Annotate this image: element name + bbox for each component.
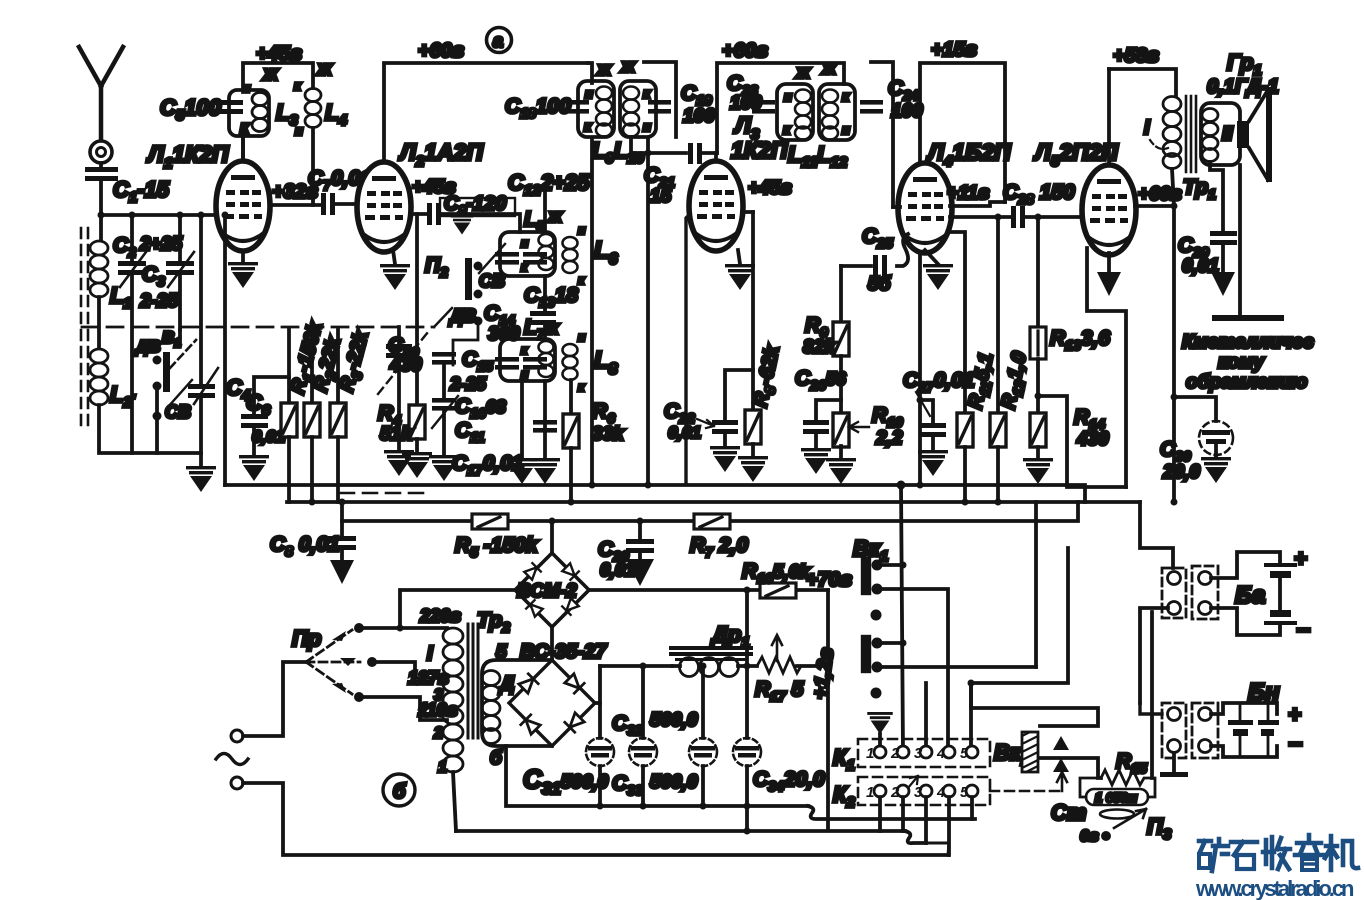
Тр2 secondary winding [482,671,500,744]
capacitor C21 15 [688,143,702,164]
dashed AGC line [82,326,434,329]
svg-text:ДВ: ДВ [134,337,161,356]
svg-text:C18100: C18100 [505,95,571,121]
wire L2 down to bottom run [99,405,201,453]
svg-text:4: 4 [936,745,946,762]
resistor R3 22k [336,330,340,403]
SEC_L2 [308,28,648,503]
Вк1 contact bar 2 [862,636,870,672]
potentiometer Ст 1650м [1086,789,1148,805]
SEC_BUSX [225,481,1178,587]
wire anode Л2 to +60в rail [384,63,588,162]
resistor R14 430 [1036,396,1040,413]
ground under Л4 [925,250,938,264]
wire Вк1 contact feeds [877,565,1036,752]
resistor R2 22k [310,330,314,403]
bus line A [225,485,1085,502]
SEC_WM [1195,835,1358,900]
bridge ВС diamond [509,660,595,746]
wire C12 from top [543,193,547,232]
wire R15 right vertical [1150,612,1154,778]
wire C21 to Л3 top [702,151,717,155]
svg-text:5: 5 [960,745,969,762]
resistor R13 3,6 [1036,217,1040,327]
wires fuse to Тр2 taps [359,626,447,630]
svg-text:2: 2 [433,725,443,742]
antenna jack [90,141,112,163]
svg-text:ВСМ-2: ВСМ-2 [517,581,577,602]
+58в rail [1109,69,1176,95]
svg-text:н: н [784,89,792,104]
wire Тр1 primary bottom down [1172,169,1174,502]
capacitor C2 2-25 variable [130,215,134,262]
wire Л5 anode up [1107,69,1111,165]
svg-text:б: б [490,748,503,769]
tube V2 Л2 1А2П [357,162,411,252]
svg-text:2-25: 2-25 [139,291,178,312]
capacitor C20 0,01 [638,521,642,540]
svg-text:C8 0,01: C8 0,01 [270,533,340,559]
wire antenna to C1 [99,163,103,168]
svg-text:II: II [1222,124,1233,145]
capacitor C19 [644,62,676,137]
svg-text:C270,01: C270,01 [903,369,975,395]
speaker voice coil [1237,121,1249,148]
svg-text:к: к [578,380,585,394]
dashed gang lines left [81,228,88,432]
svg-text:I: I [427,643,433,665]
svg-text:+: + [1294,546,1307,571]
svg-text:+45в: +45в [748,178,792,199]
transformer Тр1 primary [1163,97,1181,169]
wire +15в into Л4 screen [950,202,1005,206]
svg-text:+15в: +15в [931,39,977,61]
wire Тр2 top to bridge [400,590,515,628]
svg-text:5: 5 [496,642,507,663]
mains symbol ~ [216,754,248,765]
wire anode Л1 up to L3 [241,131,245,161]
resistor R11 5,1 [950,232,965,413]
capacitor C33 electrolytic [701,666,705,806]
speaker return to chassis [1238,165,1242,318]
capacitor C7 0,01 [321,193,335,215]
feedback box wire [1038,396,1126,487]
svg-text:н: н [243,81,251,95]
wire rail drop to IF1 [588,63,592,83]
resistor R4 51k [415,214,419,405]
capacitor C5 [213,100,243,114]
svg-text:−: − [1288,731,1302,758]
svg-text:2,2: 2,2 [875,428,903,449]
svg-text:1К2П: 1К2П [731,137,788,163]
svg-text:20,0: 20,0 [1162,462,1200,483]
svg-text:−: − [1296,617,1310,644]
mains terminal top [231,730,243,742]
svg-text:Пр: Пр [292,626,321,651]
wire C9 into oscillator [441,214,520,232]
Вк2 arm lower [1040,758,1101,778]
svg-text:C122÷25: C122÷25 [508,170,590,199]
watermark glyph yin [1295,835,1323,870]
wire L6 down long [590,140,594,485]
mains terminal bottom [231,777,243,789]
trimmer caps C12 C13 inside [495,252,547,265]
capacitor C8 0,01 [340,521,344,537]
wire long vertical x1068 [971,548,1068,752]
svg-text:15: 15 [650,186,672,207]
IF1 box L10 [620,81,656,137]
svg-text:2: 2 [890,784,900,801]
mid bottom rail [456,829,905,833]
svg-text:б: б [393,781,406,803]
arrow ground Л5 [1107,253,1111,272]
resistor R6 [569,380,573,414]
svg-text:100: 100 [683,106,715,127]
svg-text:СВ: СВ [479,271,505,291]
watermark glyph ji [1325,836,1358,870]
svg-text:2: 2 [890,745,900,762]
node b [383,774,415,806]
wire bridge right +70в line [589,588,828,592]
capacitor C22 0,01 [725,370,753,421]
coil L8 loops [563,344,578,380]
coil L1 [90,241,108,297]
wire long vertical x903 [901,485,903,752]
svg-text:C3420,0: C3420,0 [753,768,825,794]
wire C24 drop [871,62,893,207]
ground left bottom [199,453,203,466]
bus junction dots [309,481,1178,506]
rectifier box ВС-35-27 [482,660,552,746]
capacitor C25 5б [841,234,908,266]
svg-text:н: н [295,123,303,138]
transformer Тр2 primary winding [443,628,463,772]
IF1 box L9 [578,81,614,137]
R5 R7 line [342,502,1078,521]
node a [487,28,512,53]
capacitor C31 electrolytic [598,666,602,806]
svg-text:R165,6k: R165,6k [742,560,811,586]
svg-text:3: 3 [914,784,923,801]
svg-text:Д: Д [498,673,514,695]
svg-text:+60в: +60в [418,40,464,62]
bus line B [287,500,1140,504]
resistor R7 2,0 [694,514,730,529]
svg-text:Ж: Ж [262,67,279,84]
svg-text:Ж: Ж [547,209,563,226]
svg-text:2-25: 2-25 [449,374,487,394]
svg-text:к: к [643,85,651,101]
variable capacitor C4 [199,215,203,386]
wires L7 box to grounds [520,381,524,458]
SEC_L5X [903,45,1182,502]
svg-text:5: 5 [960,784,969,801]
ground under Л2 [393,250,395,264]
svg-text:4: 4 [936,784,946,801]
wire Л5 screen to Тр1 [1135,204,1174,208]
capacitor C34 electrolytic [745,666,749,831]
contour L3 tank box [229,90,269,136]
svg-text:82k: 82k [803,337,836,358]
svg-text:51k: 51k [380,424,413,445]
svg-text:н: н [578,223,586,237]
capacitor C30 20,0 [1174,397,1216,421]
capacitor C26 56 [816,400,841,421]
wire C24 into Л4 [893,205,900,209]
capacitor C18 [566,100,589,114]
svg-text:C1-15: C1-15 [113,177,170,206]
wire +45в rail [243,63,313,90]
svg-text:Ба: Ба [1235,582,1265,609]
battery connector Ба plugs [1162,568,1186,618]
wire long vertical x1036 [1034,502,1038,667]
svg-text:к: к [783,121,791,137]
svg-text:н: н [842,122,850,137]
svg-text:Ж: Ж [620,59,636,76]
resistor R16 5,6k [760,583,796,598]
svg-text:н: н [643,119,651,134]
SEC_POWER [216,518,975,856]
svg-text:500,0: 500,0 [650,772,698,793]
small ground top [451,215,474,235]
capacitor C6 [254,377,289,416]
wire x747 vertical [745,590,749,666]
svg-text:ВС-35-27: ВС-35-27 [520,641,607,663]
wire antenna node down to L1 [99,215,103,240]
Тр2 core [468,624,478,738]
coil L5 loops [539,234,554,270]
wire bottom right rail [926,843,949,855]
SEC_LEFT [81,212,434,503]
wires К2 drops [880,797,972,855]
coil L2 [90,349,108,405]
tube V5 Л5 2П2П [1082,165,1136,255]
svg-text:К: К [240,120,250,136]
+60v rail 2 [717,63,844,153]
svg-text:110в: 110в [418,700,458,720]
ВСМ-2 diodes [524,563,579,617]
svg-text:Ст: Ст [1051,800,1086,825]
dashed bus segment [340,492,430,495]
top rail power [600,664,828,668]
svg-text:1: 1 [866,784,874,801]
watermark glyph shi [1231,842,1257,869]
svg-text:0,01: 0,01 [600,560,635,580]
wire bridge bottom to ВС bridge [550,627,554,660]
svg-text:+58в: +58в [1113,45,1159,67]
svg-text:0в: 0в [1080,828,1099,845]
ground under Бн plug [1172,753,1176,772]
svg-text:I: I [1144,117,1150,139]
coil L6 loops [563,237,578,273]
IF2 box L12 [819,84,855,140]
svg-text:220в: 220в [419,606,461,626]
svg-text:R7 2,0: R7 2,0 [690,534,748,560]
speaker Гр1 frame [1201,103,1240,165]
wire grid2 Л2 to C9 [410,212,427,216]
resistor R5 150k [472,514,508,529]
capacitor C3 2-25 variable [178,215,182,262]
svg-text:1: 1 [438,759,447,776]
svg-text:127в: 127в [408,668,449,688]
bottom rail cap bank [506,746,808,806]
svg-text:www.crystalradio.cn: www.crystalradio.cn [1195,876,1354,900]
wire L1 to L2 [97,297,101,348]
svg-text:к: к [578,273,585,287]
svg-text:кому: кому [1218,352,1265,373]
svg-text:1 650м: 1 650м [1095,790,1138,805]
wire К1-3 up [924,683,928,752]
watermark glyph shou [1263,837,1290,869]
wire Ба plug to bus [1140,608,1168,703]
wire Л3 to R8 [742,210,753,214]
svg-text:+70в: +70в [806,569,852,591]
wire L4 down to screen node [311,128,315,205]
coil L3 [252,93,268,132]
SEC_SWITCH [833,485,1310,855]
+15v rail [920,63,1005,485]
SEC_IF [505,39,1005,485]
SEC_L4 [664,139,1011,484]
capacitor C27 0,01 [920,400,933,424]
wire L10 bottom to C21 [631,137,686,153]
svg-text:C5100: C5100 [160,95,222,124]
Вк1 free dots [871,610,882,621]
svg-text:Ж: Ж [596,62,612,79]
svg-text:Ж: Ж [795,65,811,82]
ground under Л1 [241,251,245,262]
svg-text:2÷25: 2÷25 [139,234,183,255]
resistor R1 150k [287,330,291,403]
svg-text:н: н [578,330,586,344]
bridge ВСМ-2 [515,553,589,627]
IF2 box L11 [777,84,813,140]
resistor R12 1,0 [996,217,1000,413]
wire C7 to Л2 grid [335,202,358,206]
svg-text:н: н [521,236,529,250]
wire secondary to C29 [1210,162,1223,231]
watermark glyph kuang [1199,839,1228,871]
bottom rail jog [808,806,975,819]
svg-text:к: к [584,118,592,134]
capacitor C1 [85,167,118,181]
capacitor C32 electrolytic [641,666,645,806]
tube V1 Л1 1К2П [216,161,270,251]
wire screen y205 to C7 [270,203,323,207]
svg-text:1: 1 [866,745,874,762]
SEC_ANT [79,43,347,288]
wire L3 tank down to anode wire [241,136,245,161]
svg-text:Кметалличес: Кметалличес [1182,332,1314,353]
coupling box L5 [500,232,555,276]
wire C28 run [950,215,1082,219]
wire Тр2 primary bottom down [453,772,456,831]
wire L10 down long [646,140,650,485]
resistor R10 2,2 [839,400,843,414]
speaker cone [1249,90,1268,180]
svg-text:Ж: Ж [316,62,333,79]
svg-text:к: к [521,343,528,357]
coil L4 [305,89,321,128]
bus B right elbow to Ба [1140,502,1173,568]
svg-text:C28 150: C28 150 [1003,181,1075,207]
svg-text:0,1ГД-1: 0,1ГД-1 [1207,76,1279,98]
Вк1 contact bar 1 [862,558,870,594]
coupling box L7 [500,339,555,381]
wire x828 vertical [826,590,830,829]
svg-text:3: 3 [914,745,923,762]
Тр1 core [1186,96,1196,172]
capacitor C28 150 [1011,206,1025,228]
resistor R8 62k [751,212,755,410]
svg-text:н: н [585,86,593,101]
wire straight drop x225 [223,215,227,485]
svg-text:500,0: 500,0 [650,710,698,731]
wire Вк2 arm feed [971,683,1098,726]
capacitor C29 0,01 [1210,231,1237,245]
resistor R9 82k [839,266,843,322]
svg-text:а: а [493,31,503,51]
svg-text:430: 430 [1076,429,1109,450]
wire grid run y215 [101,213,217,217]
wire bridge top to R5 line [550,521,554,553]
capacitor C24 [860,100,883,114]
tube V4 Л4 1Б2П [898,163,952,253]
svg-text:R5 -150k: R5 -150k [455,534,539,560]
svg-text:+60в: +60в [722,40,768,62]
dashed link К2 to Вк2 [990,790,1062,793]
cathode box Л5 [1087,248,1126,487]
capacitor C17 bars [533,420,557,433]
antenna W1 [79,47,123,140]
resistor R15 [1101,770,1149,785]
ground above К1-1 [867,712,893,734]
coil L9 [596,87,612,137]
svg-text:к: к [842,88,850,104]
capacitor C9 120 [427,203,441,225]
svg-text:R133,6: R133,6 [1050,327,1110,353]
wire Бн to П3 vertical [1140,608,1162,714]
resistor R17 5 [757,657,801,673]
tube V3 Л3 1К2П [714,153,718,161]
wire bridge right to C31 [595,701,600,705]
svg-text:5б: 5б [868,274,892,295]
svg-text:+11в: +11в [947,183,989,204]
svg-text:33k: 33k [592,424,625,445]
SEC_OUT [1144,50,1314,502]
battery Бн [1211,703,1277,714]
ground under Л3 [738,250,740,264]
svg-text:Ж: Ж [821,61,837,78]
switch В1 ДВ/СВ [178,330,182,345]
capacitor C14 bars [530,311,556,325]
svg-text:+: + [1288,702,1301,727]
svg-text:обрамлению: обрамлению [1186,372,1307,393]
